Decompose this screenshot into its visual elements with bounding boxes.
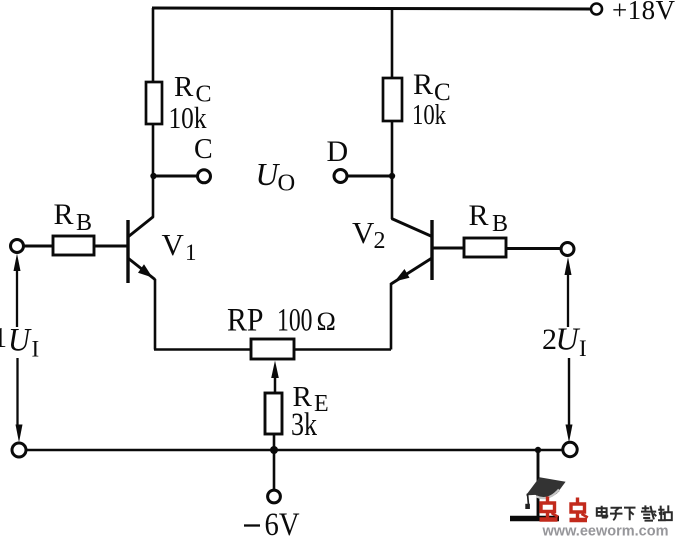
wire V1 emitter vertical [154, 279, 157, 350]
svg-text:V: V [162, 227, 185, 262]
svg-text:www.eeworm.com: www.eeworm.com [542, 523, 669, 536]
wire base left [94, 245, 128, 248]
terminal +18V [591, 4, 602, 15]
svg-text:R: R [54, 198, 74, 231]
svg-text:R: R [469, 199, 489, 232]
wire input left to RB [24, 245, 53, 248]
wire V2 emitter vertical [390, 283, 393, 350]
wire emitter to RP left [154, 348, 251, 351]
watermark cap icon [525, 477, 565, 509]
svg-text:3k: 3k [291, 407, 317, 443]
svg-text:O: O [278, 170, 296, 197]
terminal C [198, 170, 211, 183]
transistor V2 [391, 219, 432, 285]
wire left branch upper [152, 8, 155, 82]
watermark text chongchong [540, 497, 588, 521]
ground [510, 516, 559, 522]
svg-text:I: I [579, 336, 587, 361]
svg-text:+18V: +18V [612, 0, 676, 25]
svg-text:B: B [76, 210, 92, 236]
wire right input vertical lower [568, 358, 570, 425]
wire ground [537, 450, 540, 516]
wire top supply rail [152, 8, 592, 9]
resistor RB right [464, 238, 506, 257]
svg-text:V: V [352, 215, 375, 250]
svg-text:10k: 10k [412, 100, 446, 131]
svg-text:1: 1 [185, 240, 197, 265]
terminal bottom right [563, 442, 577, 456]
wiper arrow RP [271, 361, 279, 395]
svg-text:Ω: Ω [317, 307, 336, 336]
arrow down right input [566, 425, 573, 443]
svg-text:R: R [413, 68, 433, 101]
terminal bottom left [12, 443, 26, 457]
svg-text:R: R [174, 71, 194, 103]
svg-text:U: U [8, 323, 32, 359]
wire right branch lower [391, 121, 394, 219]
wire right input vertical upper [567, 273, 569, 327]
node D junction [389, 173, 395, 179]
svg-text:2: 2 [374, 228, 386, 254]
wire terminal D to branch [347, 175, 392, 178]
label -6V [244, 507, 300, 536]
svg-text:U: U [556, 321, 581, 357]
transistor V1 [128, 217, 155, 284]
resistor RE [265, 393, 282, 434]
resistor RC left [146, 82, 162, 124]
terminal input left [11, 240, 24, 253]
svg-text:C: C [194, 134, 213, 165]
wire RE to rail [273, 434, 276, 450]
node ground junction [535, 447, 541, 453]
resistor RB left [53, 236, 94, 255]
svg-text:D: D [327, 135, 349, 168]
svg-text:1: 1 [0, 323, 7, 354]
svg-text:6V: 6V [265, 507, 300, 536]
arrow down left input [16, 425, 23, 443]
arrow up left input [14, 254, 21, 272]
wire right branch upper [391, 9, 394, 79]
wire RB right to terminal [506, 247, 561, 250]
svg-text:100: 100 [277, 303, 313, 339]
wire RP right to V2 emitter [294, 348, 391, 351]
wire bottom rail [26, 449, 564, 452]
svg-text:RP: RP [227, 303, 264, 339]
arrow up right input [565, 257, 572, 275]
resistor RC right [383, 78, 402, 121]
wire to terminal C [153, 175, 198, 178]
potentiometer RP [251, 339, 294, 359]
wire base right [432, 247, 464, 250]
wire left branch lower [152, 124, 155, 217]
node RE rail junction [270, 446, 278, 454]
node C junction [150, 173, 156, 179]
wire rail to -6V terminal [273, 450, 276, 490]
wire wiper to RE [273, 392, 276, 394]
svg-text:10k: 10k [169, 100, 207, 135]
wire left input vertical upper [16, 269, 18, 327]
wire left input vertical lower [16, 358, 18, 425]
watermark text site name [597, 505, 672, 520]
svg-text:B: B [492, 211, 508, 237]
terminal input right [561, 243, 574, 256]
terminal -6V [268, 490, 281, 503]
svg-text:I: I [32, 337, 40, 362]
terminal D [334, 170, 347, 183]
